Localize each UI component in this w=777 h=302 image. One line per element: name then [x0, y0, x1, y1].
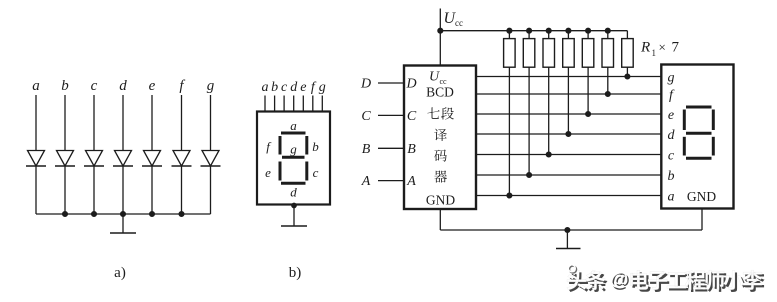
diode e [142, 151, 162, 167]
svg-text:e: e [300, 80, 306, 95]
svg-text:c: c [91, 78, 98, 94]
wire [151, 166, 153, 214]
wire segment f [476, 93, 661, 95]
pin g [319, 80, 326, 112]
decoder U1 (BCD seven-segment decoder) [404, 66, 476, 210]
svg-text:g: g [668, 70, 675, 85]
junction [63, 212, 68, 217]
svg-text:a: a [290, 118, 297, 133]
wire [293, 205, 295, 227]
segment g [282, 142, 305, 158]
svg-text:b: b [61, 78, 69, 94]
svg-text:d: d [290, 185, 297, 200]
svg-text:e: e [265, 165, 271, 180]
svg-text:a): a) [114, 265, 126, 281]
segment f [266, 136, 280, 155]
wire Ucc rail [440, 30, 627, 32]
wire [35, 95, 37, 151]
input B [362, 142, 417, 157]
wire [181, 95, 183, 151]
svg-text:a: a [32, 78, 40, 94]
diode d [113, 151, 133, 167]
wire [210, 95, 212, 151]
wire [93, 95, 95, 151]
ground [110, 214, 136, 233]
svg-text:D: D [360, 77, 371, 92]
label 器 [434, 170, 447, 182]
svg-text:1: 1 [652, 48, 657, 58]
svg-text:d: d [119, 78, 127, 94]
segment b [307, 136, 319, 155]
input A [361, 174, 417, 189]
svg-text:g: g [207, 78, 215, 94]
svg-text:e: e [668, 108, 674, 123]
svg-text:GND: GND [687, 189, 716, 204]
svg-text:a: a [668, 189, 675, 204]
svg-text:B: B [407, 142, 416, 157]
svg-text:D: D [405, 77, 416, 92]
wire [210, 166, 212, 214]
svg-text:d: d [290, 80, 298, 95]
resistor R1 unit 2 (to segment b) [523, 28, 535, 177]
svg-text:c: c [281, 80, 288, 95]
svg-text:A: A [406, 174, 416, 189]
wire [122, 95, 124, 151]
pin c [281, 80, 288, 112]
svg-text:C: C [361, 109, 371, 124]
svg-text:d: d [668, 128, 676, 143]
svg-text:7: 7 [672, 40, 680, 56]
svg-text:C: C [407, 109, 417, 124]
wire [93, 166, 95, 214]
svg-text:g: g [290, 142, 297, 157]
ground [556, 230, 581, 249]
resistor R1 unit 5 (to segment e) [582, 28, 594, 116]
net Ucc [440, 9, 463, 66]
svg-text:BCD: BCD [426, 85, 454, 100]
svg-text:U: U [429, 70, 440, 85]
label 七段 [427, 107, 454, 119]
svg-text:B: B [362, 142, 371, 157]
svg-text:e: e [149, 78, 156, 94]
pin e [300, 80, 306, 112]
wire [35, 166, 37, 214]
junction [92, 212, 97, 217]
svg-text:A: A [361, 174, 371, 189]
decoder circuit [360, 9, 734, 249]
wire segment b [476, 174, 661, 176]
pin d [290, 80, 298, 112]
wire cathode bus [36, 213, 211, 215]
segment e [265, 162, 280, 181]
svg-text:b): b) [289, 265, 302, 281]
junction [150, 212, 155, 217]
wire [64, 95, 66, 151]
diode g [201, 151, 221, 167]
watermark 头条@电子工程师小李 [567, 265, 765, 292]
display outline [257, 112, 330, 205]
label 码 [434, 149, 447, 161]
7-segment package, part b) [257, 80, 330, 281]
junction [438, 28, 443, 33]
wire segment g [476, 76, 661, 78]
junction [121, 212, 126, 217]
input C [361, 109, 417, 124]
svg-text:@: @ [610, 269, 629, 290]
pin a [262, 80, 269, 112]
display DS1 outline [661, 65, 733, 209]
diode f [172, 151, 192, 167]
svg-text:b: b [271, 80, 278, 95]
svg-text:b: b [312, 139, 319, 154]
LED array, part a) [26, 78, 221, 281]
wire display GND stem [701, 209, 703, 231]
label 译 [434, 129, 447, 141]
wire segment c [476, 154, 661, 156]
segment d [281, 183, 306, 199]
svg-text:b: b [668, 169, 675, 184]
seven-segment digit [684, 107, 713, 158]
svg-text:R: R [640, 40, 650, 56]
svg-text:a: a [262, 80, 269, 95]
svg-text:g: g [319, 80, 326, 95]
svg-text:cc: cc [455, 18, 463, 28]
wire decoder GND stem [439, 209, 441, 230]
input D [360, 77, 417, 92]
resistor R1 unit 6 (to segment f) [602, 28, 614, 96]
wire ground rail [440, 229, 702, 231]
resistor R1 unit 4 (to segment d) [563, 28, 575, 136]
wire segment a [476, 195, 661, 197]
diode c [84, 151, 104, 167]
svg-text:GND: GND [426, 193, 455, 208]
wire segment e [476, 113, 661, 115]
wire [64, 166, 66, 214]
resistor R1 unit 7 (to segment g) [622, 31, 634, 79]
wire [151, 95, 153, 151]
label Ucc (pin) [429, 70, 447, 87]
pin f [311, 80, 317, 112]
resistor R1 unit 3 (to segment c) [543, 28, 555, 157]
svg-text:c: c [313, 165, 319, 180]
resistor R1 unit 1 (to segment a) [504, 28, 515, 198]
junction [565, 228, 570, 233]
value label R1 x 7 [640, 40, 680, 59]
wire segment d [476, 133, 661, 135]
diode a [26, 151, 46, 167]
common pin junction [292, 203, 296, 207]
segment a [281, 118, 306, 133]
diode b [55, 151, 75, 167]
pin b [271, 80, 278, 112]
svg-text:×: × [659, 40, 666, 55]
wire [122, 166, 124, 214]
ground [281, 225, 307, 227]
segment c [307, 162, 319, 181]
wire [181, 166, 183, 214]
svg-text:c: c [668, 148, 675, 163]
junction [179, 212, 184, 217]
